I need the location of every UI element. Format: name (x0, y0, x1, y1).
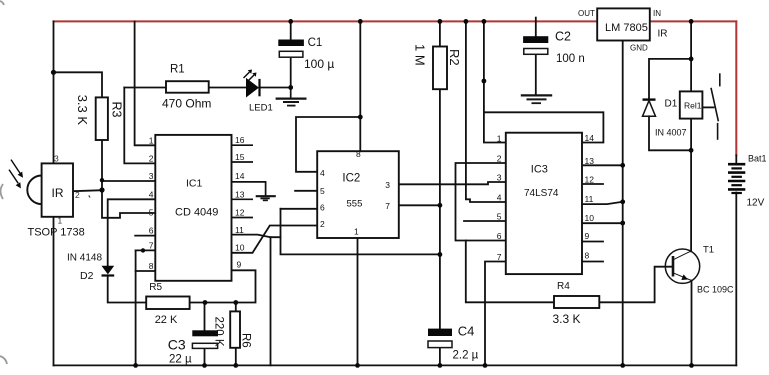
svg-text:6: 6 (149, 226, 154, 236)
battery Bat1 (728, 164, 745, 193)
junction IC1 pin7 / ground line (141, 248, 145, 252)
svg-text:IN: IN (653, 9, 661, 18)
wire T1 emitter to ground rail (691, 281, 693, 366)
wire IC3 pin8 stub (582, 261, 603, 263)
svg-text:16: 16 (235, 135, 245, 145)
svg-text:3: 3 (54, 154, 59, 164)
wire D1 bottom branch (649, 116, 691, 150)
svg-text:T1: T1 (703, 244, 714, 255)
wire IC1 pin11 stub to ground drop (232, 235, 281, 238)
wire left rail top (red rail to IR pin3) (53, 21, 55, 163)
resistor R1 (166, 81, 209, 93)
svg-text:470 Ohm: 470 Ohm (162, 97, 211, 111)
junction ground rail / IC3 pin7 (483, 363, 488, 368)
svg-text:1: 1 (354, 227, 359, 237)
wire bottom ground rail (54, 364, 737, 366)
wire red rail to R2 top (439, 21, 441, 46)
svg-text:C1: C1 (308, 37, 323, 49)
wire battery top stem (735, 155, 737, 163)
svg-text:3: 3 (497, 173, 502, 183)
wire IC1 pin7/pin8 ground line (135, 250, 137, 365)
switch (relay contact) (711, 73, 720, 140)
junction LED1 cathode / C1 ground node (288, 85, 293, 90)
wire Rel1 bottom to T1 collector (690, 119, 692, 252)
ground symbol below C2 (521, 95, 552, 103)
wire IC2 pin7 to R2 line (399, 204, 440, 206)
junction red rail / IC2 pin8 (358, 19, 363, 24)
junction ground rail / IC2 pin1 (355, 363, 360, 368)
svg-text:C4: C4 (458, 324, 475, 339)
wire R3 feed from left rail (54, 72, 103, 97)
capacitor C1 (electrolytic) (278, 40, 304, 58)
svg-text:11: 11 (585, 194, 594, 204)
svg-text:1: 1 (497, 134, 502, 144)
svg-text:6: 6 (320, 203, 325, 213)
junction red rail / IC3 pin4 line (464, 19, 469, 24)
junction ground rail / T1 emitter (689, 363, 694, 368)
IR reception arrows at TSOP (9, 160, 20, 184)
svg-text:IR: IR (52, 186, 64, 200)
relay Rel1 body (680, 91, 703, 118)
svg-text:IC2: IC2 (342, 173, 360, 185)
junction relay line / D1 top (689, 57, 694, 62)
IC2 body (317, 151, 399, 238)
svg-text:12V: 12V (747, 198, 765, 209)
svg-text:LED1: LED1 (249, 102, 273, 113)
wire red rail to IC1 pin1 (135, 21, 156, 145)
svg-text:C2: C2 (555, 29, 571, 43)
wire IC1 pin6 stub (135, 235, 155, 237)
wire IC3 pin11 to LM gnd line (582, 202, 623, 204)
svg-text:5: 5 (149, 208, 154, 218)
wire red rail to IC3 pin4 (466, 21, 506, 202)
wire R4 right to T1 base (599, 267, 672, 303)
svg-text:IC3: IC3 (531, 164, 548, 176)
svg-text:2: 2 (320, 219, 325, 229)
IC2 pin numbers (320, 149, 390, 237)
svg-text:4: 4 (149, 189, 154, 199)
junction left rail / R3 branch (51, 70, 56, 75)
wire LED1 cathode to C1 ground node (260, 87, 291, 89)
svg-text:Rel1: Rel1 (684, 101, 702, 111)
wire left rail bottom (IR pin1 to ground rail) (53, 217, 55, 366)
svg-text:100 n: 100 n (556, 53, 585, 65)
junction R2 line / RC node (438, 252, 443, 257)
diode D1 IN4007 (643, 100, 656, 117)
svg-text:R1: R1 (170, 63, 185, 75)
IC3 body (506, 133, 582, 274)
wire IC3 pin2 to pin6 link (456, 163, 506, 241)
wire IC1 pin10 diagonal to IC2 pin2 (232, 226, 318, 253)
wire +5V branch to IC3 pin14 (484, 112, 604, 142)
svg-text:2: 2 (497, 154, 502, 164)
IC1 body (155, 135, 231, 281)
junction IC1 pin3 / R3 line (100, 178, 104, 182)
junction LM gnd line / IC3 pin13 (620, 163, 625, 168)
svg-text:13: 13 (235, 189, 245, 199)
svg-text:Bat1: Bat1 (748, 154, 767, 164)
svg-text:R6: R6 (240, 333, 252, 348)
resistor R4 (554, 296, 599, 308)
junction IC2 pin8 / pin4 loop (358, 115, 363, 120)
wire ground drop line (270, 237, 272, 365)
svg-text:3: 3 (149, 171, 154, 181)
IC3 right pin numbers (585, 133, 595, 261)
svg-text:5: 5 (497, 212, 502, 222)
svg-text:8: 8 (149, 261, 154, 271)
junction ground rail / LM gnd line (620, 363, 625, 368)
junction ground rail / C3 (202, 363, 207, 368)
svg-text:4: 4 (320, 168, 325, 178)
wire red rail +5V line to IC3 pin1 (484, 21, 506, 142)
svg-text:3.3 K: 3.3 K (553, 312, 581, 326)
IC1 pin stubs right side (232, 145, 266, 217)
svg-text:R4: R4 (557, 281, 570, 292)
svg-text:8: 8 (356, 149, 361, 159)
svg-text:IR: IR (658, 29, 668, 40)
wire IC3 pin7 to ground rail (485, 262, 506, 366)
resistor R6 (230, 311, 240, 347)
wire IC2 pin4 loop from pin8 node (296, 117, 360, 172)
svg-text:100 µ: 100 µ (304, 57, 334, 71)
svg-text:R5: R5 (149, 282, 162, 293)
pin 16 stub (232, 144, 254, 146)
svg-text:C3: C3 (168, 337, 186, 353)
junction IR pin2 / R3 line (99, 187, 104, 192)
junction R5 right / C3 top (203, 300, 208, 305)
svg-text:1 M: 1 M (413, 44, 428, 66)
svg-text:12: 12 (585, 175, 595, 185)
junction red rail / relay line (689, 19, 694, 24)
wire IC1 pin4 to D2 top (108, 199, 156, 265)
svg-text:22 K: 22 K (155, 314, 178, 326)
wire red rail right of LM7805 (650, 20, 737, 22)
wire IC3 pin5 stub (464, 220, 506, 222)
wire C1 top stem from red rail (290, 21, 292, 39)
wire C3 top stem (204, 303, 206, 332)
junction ground rail / C4 (438, 363, 443, 368)
junction ground rail / IC1 pin7 line (133, 363, 138, 368)
svg-text:CD 4049: CD 4049 (175, 207, 218, 219)
svg-text:3.3 K: 3.3 K (75, 95, 90, 126)
wire R2 bottom to C4 top (439, 89, 441, 328)
wire IC2 pin1 to ground rail (357, 238, 359, 365)
svg-text:4: 4 (497, 193, 502, 203)
wire R6 leads (235, 303, 237, 312)
svg-text:7: 7 (497, 252, 502, 262)
wire IR pin2 to R3 line (73, 190, 102, 191)
IC1 right pin numbers (235, 135, 245, 269)
voltage regulator U-LM7805 body (597, 8, 650, 40)
svg-text:10: 10 (585, 213, 595, 223)
wire LM7805 GND to ground rail (622, 40, 624, 365)
stray tick near IR pin2 wire (89, 196, 90, 198)
svg-text:R2: R2 (447, 49, 462, 66)
svg-text:9: 9 (237, 260, 242, 270)
wire R3 bottom to IC1 pin5 jog (102, 140, 155, 218)
svg-text:5: 5 (320, 186, 325, 196)
svg-text:2.2 µ: 2.2 µ (453, 349, 479, 361)
junction red rail / +5V line (482, 19, 487, 24)
wire IC2 pin5 stub (295, 190, 317, 192)
wire IC1 pin3 to R3 line (102, 180, 155, 182)
wire C1 bottom stem (290, 57, 292, 88)
junction LM gnd line / IC3 pin10 (620, 221, 625, 226)
wire R5 right to IC1 pin9 riser (190, 270, 256, 302)
wire D2 bottom to R5 left (108, 276, 147, 303)
wire red rail left of LM7805 (54, 20, 598, 22)
junction relay line / D1 bottom (689, 148, 694, 153)
LED1 emission arrows (244, 72, 255, 81)
svg-text:BC 109C: BC 109C (697, 284, 734, 294)
wire red rail to IC2 pin8 (359, 21, 361, 151)
resistor R2 (433, 47, 447, 90)
junction red rail / C1 (288, 19, 293, 24)
svg-text:TSOP 1738: TSOP 1738 (28, 227, 85, 239)
svg-text:2: 2 (149, 153, 154, 163)
pin 12 stub (232, 217, 254, 219)
junction +5V line node (482, 79, 487, 84)
ground symbol below C1 (276, 88, 307, 106)
svg-text:9: 9 (585, 231, 590, 241)
svg-text:74LS74: 74LS74 (524, 188, 559, 199)
svg-text:15: 15 (235, 152, 245, 162)
capacitor C4 (electrolytic) (428, 329, 452, 348)
wire C2 stem bottom to ground symbol (535, 54, 537, 95)
wire red vertical to battery (735, 21, 737, 155)
svg-text:7: 7 (149, 240, 154, 250)
IC1 left pin numbers (149, 135, 154, 271)
svg-text:LM 7805: LM 7805 (605, 22, 648, 34)
wire IC3 pin12 stub (582, 183, 603, 185)
wire battery bottom stem (735, 193, 737, 366)
svg-text:6: 6 (497, 231, 502, 241)
wire switch feed from Rel1 (702, 106, 713, 108)
wire D1 top branch (649, 59, 691, 100)
pin 15 stub (232, 161, 254, 163)
svg-text:11: 11 (235, 225, 244, 235)
svg-text:12: 12 (235, 208, 245, 218)
svg-text:22 µ: 22 µ (169, 354, 192, 366)
pin 14 stub to ground (232, 182, 266, 196)
junction ground rail / R6 (233, 363, 238, 368)
svg-text:2: 2 (75, 190, 80, 200)
junction LM gnd line / IC3 pin11 (620, 199, 625, 204)
capacitor C3 (electrolytic) (192, 330, 218, 348)
wire relay coil line from red rail (690, 21, 692, 91)
svg-text:14: 14 (235, 171, 245, 181)
wire IC3 pin6 down to R4 left (466, 241, 554, 303)
IC3 left pin numbers (497, 134, 502, 263)
capacitor C2 (electrolytic) (523, 36, 548, 54)
junction red rail / R2 (438, 19, 443, 24)
svg-text:IN 4148: IN 4148 (67, 253, 102, 264)
junction R2 line / IC2 pin7 (438, 203, 443, 208)
+12V red supply rail (54, 21, 737, 155)
wire IC3 pin13 to LM gnd line (582, 164, 623, 166)
svg-text:7: 7 (385, 201, 390, 211)
wire IC3 pin9 stub (582, 241, 603, 243)
svg-text:GND: GND (630, 43, 648, 52)
wire IC2 pin6 to RC node riser (281, 208, 318, 210)
svg-text:D1: D1 (665, 99, 678, 110)
ground symbol at IC1 pin14 (256, 196, 276, 200)
resistor R5 (146, 297, 189, 310)
wire IC1 pin2 riser and R1 feed (124, 88, 155, 164)
diode D2 IN4148 (102, 266, 115, 276)
svg-text:OUT: OUT (578, 9, 595, 18)
diode LED1 (244, 70, 260, 98)
svg-text:220 K: 220 K (213, 317, 225, 347)
svg-text:3: 3 (385, 180, 390, 190)
IR receiver TSOP1738 body (27, 176, 41, 205)
svg-text:10: 10 (235, 243, 245, 253)
svg-text:1: 1 (58, 216, 63, 226)
wire R1 right to LED1 anode (209, 87, 246, 89)
svg-text:14: 14 (585, 133, 595, 143)
svg-text:1: 1 (149, 135, 154, 145)
junction R5 wire / R6 top (233, 300, 238, 305)
wire C2 stem top (535, 18, 537, 37)
wire C3 bottom stem (204, 348, 206, 365)
wire C4 bottom to ground rail (439, 348, 441, 366)
transistor T1 BC109C (665, 249, 699, 283)
svg-text:D2: D2 (80, 270, 94, 282)
svg-text:IN 4007: IN 4007 (655, 128, 687, 138)
wire IC3 pin10 to LM gnd line (582, 222, 623, 224)
wire IC2 pin3 to IC3 pin3 (399, 182, 506, 184)
svg-text:8: 8 (585, 251, 590, 261)
pin 13 stub (232, 198, 254, 200)
resistor R3 (96, 97, 108, 140)
scan artifact marks at left edge (0, 1, 7, 364)
svg-text:555: 555 (347, 199, 363, 210)
svg-text:IC1: IC1 (186, 178, 203, 190)
svg-text:13: 13 (585, 156, 595, 166)
svg-text:R3: R3 (110, 102, 124, 118)
